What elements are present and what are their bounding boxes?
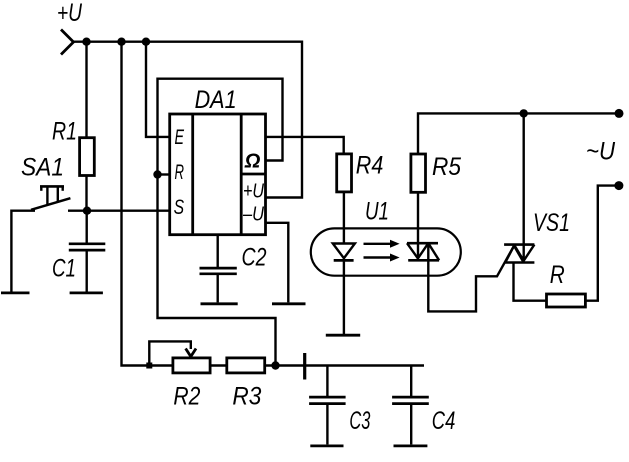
phototriac of U1 — [407, 192, 439, 260]
LED of U1 — [333, 244, 355, 335]
arrow optocoupler top — [364, 240, 400, 248]
node junction rail-R1 — [82, 38, 90, 46]
wire top +U rail to DA1 +U pin — [73, 42, 302, 198]
svg-text:C3: C3 — [349, 407, 370, 435]
wire VS1 bottom to R — [514, 263, 547, 301]
node junction rail-E — [142, 38, 150, 46]
svg-text:R3: R3 — [232, 383, 261, 411]
svg-text:DA1: DA1 — [195, 86, 237, 114]
node terminal ~U lower — [614, 181, 623, 190]
arrow optocoupler bottom — [364, 254, 400, 262]
svg-text:R1: R1 — [52, 118, 77, 146]
svg-text:R4: R4 — [356, 152, 384, 180]
svg-text:Ω: Ω — [244, 151, 261, 173]
ground bar C4 — [394, 444, 428, 447]
svg-text:E: E — [175, 126, 185, 149]
wire S node horizontal — [68, 209, 170, 211]
ground bar C2 — [201, 302, 238, 305]
svg-text:S: S — [174, 196, 185, 219]
svg-text:C2: C2 — [242, 244, 267, 272]
ground bar -U — [272, 302, 306, 305]
wire R to terminal — [585, 186, 619, 301]
wiper arrow R2 — [186, 349, 196, 357]
svg-text:–U: –U — [242, 204, 264, 226]
wire Omega feedback loop — [158, 79, 283, 366]
capacitor C2 — [200, 268, 237, 302]
node junction R2 wiper — [146, 363, 152, 369]
svg-text:R: R — [550, 261, 565, 289]
wire DA1 bottom pin to C2 — [216, 235, 218, 267]
wire R1 to S node — [85, 176, 87, 211]
capacitor C3 — [309, 366, 346, 445]
ground bar C1 — [70, 291, 103, 294]
node +U terminal arrow — [61, 30, 74, 55]
node junction S — [83, 207, 91, 215]
wire rail to R2 left (x=121.5) and bottom bus — [122, 42, 425, 366]
wire E pin to R4 — [266, 137, 344, 154]
svg-text:C4: C4 — [432, 407, 456, 435]
svg-text:VS1: VS1 — [533, 209, 570, 237]
wire rail to E pin — [146, 42, 170, 137]
wire R pin — [158, 173, 170, 175]
resistor R4 — [337, 154, 352, 192]
wire -U pin down — [266, 223, 289, 303]
node junction VS1 top — [520, 109, 528, 117]
ground bar SA1 — [1, 291, 30, 294]
wire rail to R1 — [85, 42, 87, 138]
svg-text:R: R — [175, 161, 185, 184]
wire R4 to LED — [343, 192, 345, 244]
svg-text:R5: R5 — [432, 153, 461, 181]
potentiometer R2 — [173, 358, 210, 373]
ground bar C3 — [310, 444, 343, 447]
node junction loop-R pin — [153, 170, 161, 178]
node tick on bottom bus — [303, 353, 306, 380]
capacitor C1 — [69, 211, 106, 292]
svg-text:+U: +U — [243, 181, 264, 203]
optocoupler U1 body — [311, 228, 461, 275]
node terminal top right — [615, 109, 624, 118]
resistor R — [547, 294, 586, 307]
node junction rail-R2branch — [117, 38, 125, 46]
svg-text:~U: ~U — [586, 138, 616, 166]
capacitor C4 — [392, 366, 429, 445]
triac VS1 — [504, 113, 534, 262]
svg-text:SA1: SA1 — [21, 154, 64, 182]
resistor R1 — [80, 138, 95, 176]
switch SA1 — [31, 186, 70, 209]
svg-text:R2: R2 — [173, 383, 200, 411]
wire R5 top rail — [418, 113, 619, 153]
node junction loop-bottom bus — [271, 361, 279, 369]
resistor R5 — [411, 154, 426, 192]
wire R2 wiper — [149, 341, 191, 365]
wire SA1 left contact down — [11, 211, 35, 292]
ground bar LED — [326, 334, 360, 337]
wire U1 output to VS1 gate — [428, 246, 514, 312]
resistor R3 — [227, 358, 265, 373]
IC DA1 box — [170, 114, 266, 235]
svg-text:C1: C1 — [52, 255, 76, 283]
svg-text:+U: +U — [57, 0, 83, 27]
svg-text:U1: U1 — [365, 198, 389, 226]
